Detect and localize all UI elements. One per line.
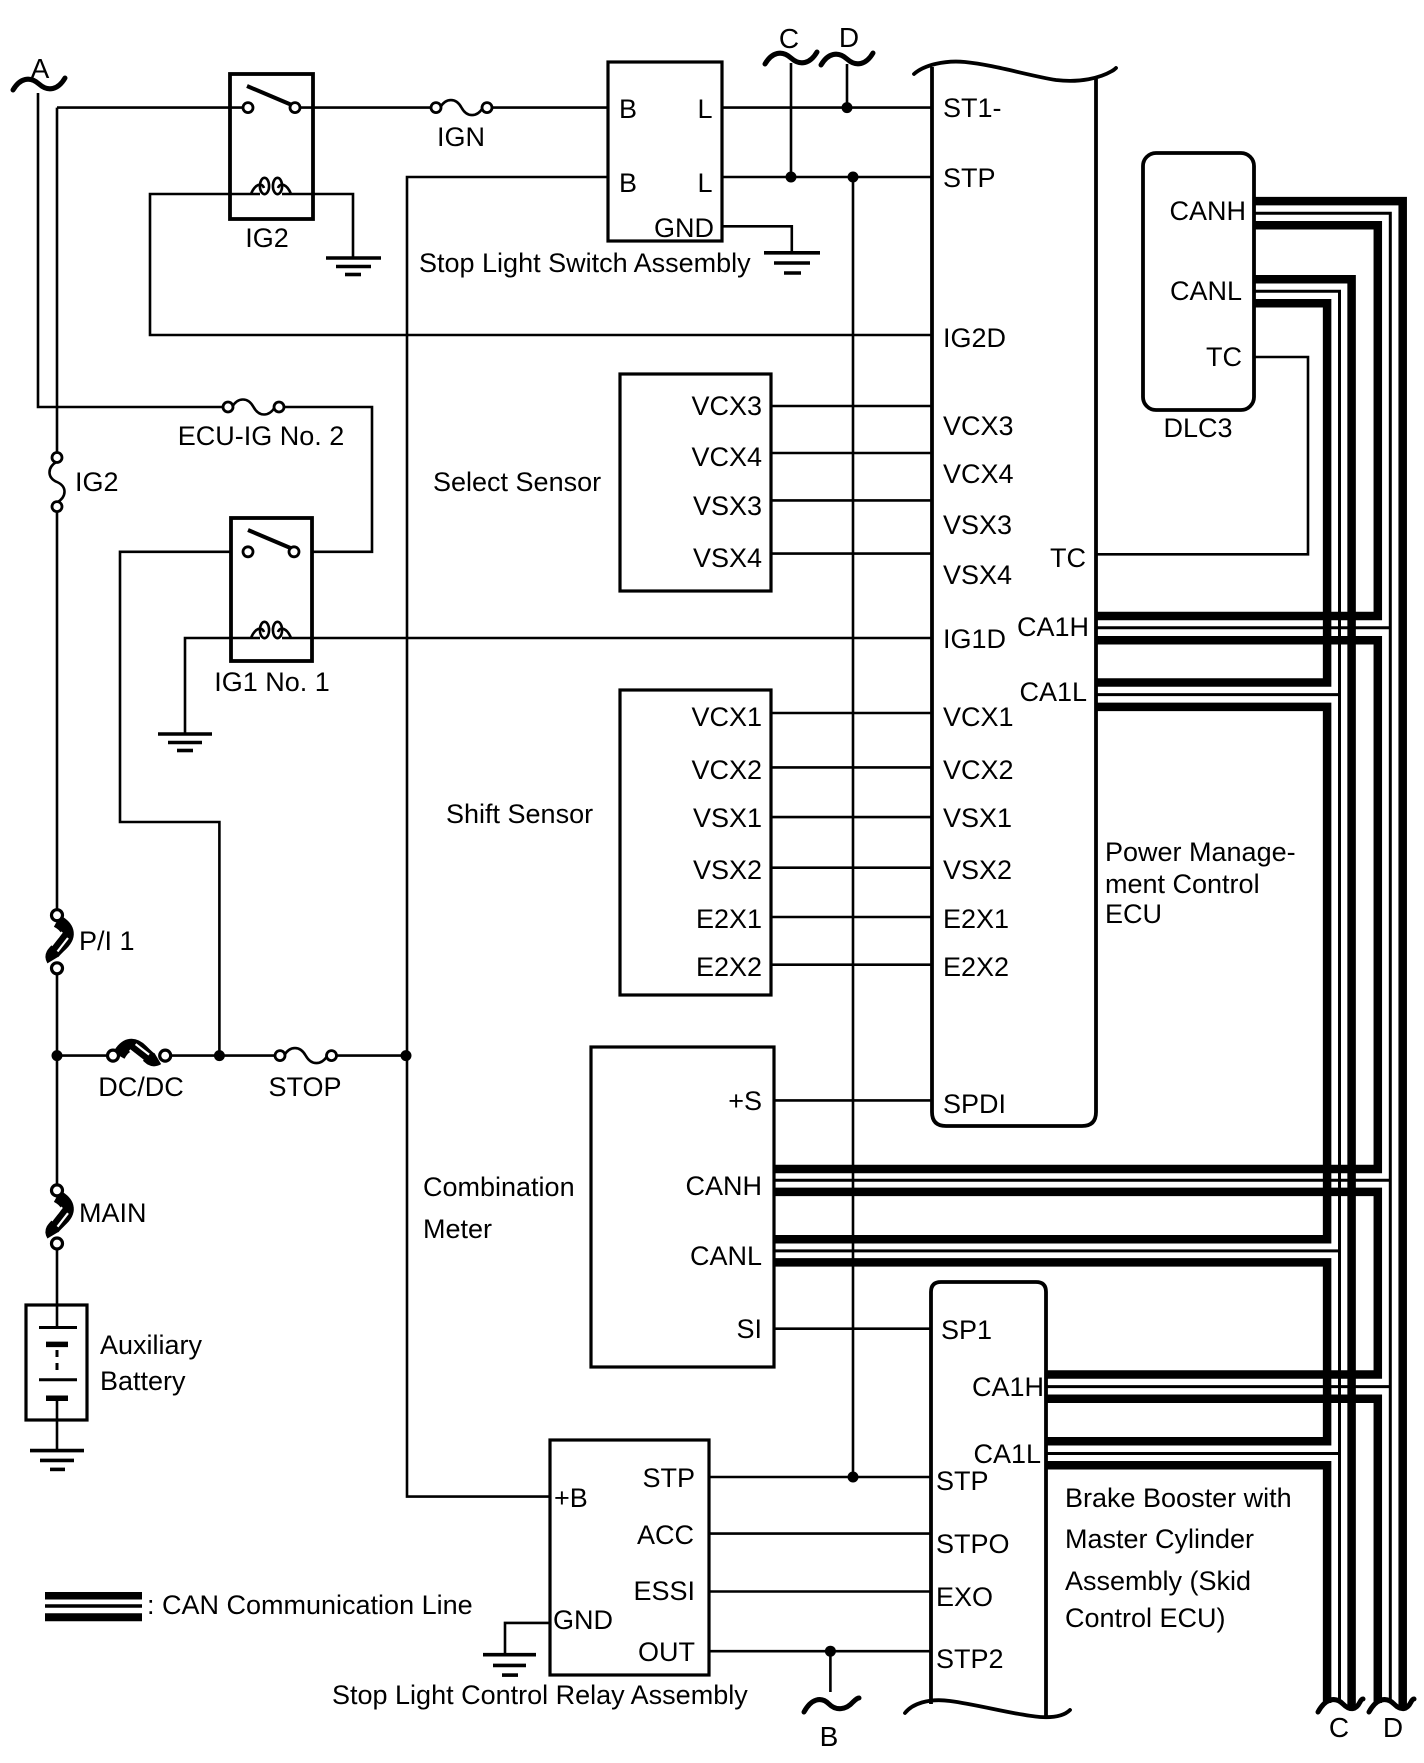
svg-text:IGN: IGN xyxy=(437,122,485,152)
fuse IG2 vertical xyxy=(50,453,65,512)
junction dot OUT/B xyxy=(825,1646,836,1657)
relay IG1 contact circles xyxy=(243,547,253,557)
fuse ECU-IG No.2 xyxy=(223,400,284,415)
CAN ECU CA1H thin xyxy=(1096,626,1390,629)
svg-text:E2X2: E2X2 xyxy=(696,952,762,982)
wire +S to SPDI xyxy=(774,1099,932,1102)
wire stub to connector B xyxy=(829,1651,832,1692)
svg-text:Power Manage-: Power Manage- xyxy=(1105,837,1296,867)
CAN trunk D outer line D3 from DLC3 CANH xyxy=(1254,201,1403,1710)
wire IG1 relay switch left xyxy=(120,552,231,1051)
svg-text:VCX1: VCX1 xyxy=(943,702,1014,732)
svg-text:STP: STP xyxy=(642,1463,695,1493)
svg-text:VSX2: VSX2 xyxy=(943,855,1012,885)
wire STOP fuse to vertical xyxy=(336,1054,407,1057)
svg-text:VCX3: VCX3 xyxy=(691,391,762,421)
shift sensor box xyxy=(620,690,771,995)
svg-text:ECU: ECU xyxy=(1105,899,1162,929)
svg-text:MAIN: MAIN xyxy=(79,1198,147,1228)
fusible link DC/DC horizontal xyxy=(108,1044,171,1061)
CAN trunk D inner line D1 segment a to ECU CA1H xyxy=(1096,225,1378,616)
wire IG1 coil to IG1D xyxy=(282,637,932,640)
svg-text:Auxiliary: Auxiliary xyxy=(100,1330,203,1360)
svg-text:VCX2: VCX2 xyxy=(691,755,762,785)
svg-text:VSX3: VSX3 xyxy=(693,491,762,521)
CAN trunk C inner line C1 segment d to connector C xyxy=(1046,1465,1327,1703)
brake booster box xyxy=(931,1282,1046,1716)
svg-text:IG2: IG2 xyxy=(75,467,119,497)
svg-text:VSX4: VSX4 xyxy=(943,560,1012,590)
select sensor box xyxy=(620,374,771,591)
wire relay ACC to booster STPO xyxy=(709,1532,931,1535)
svg-text:IG2D: IG2D xyxy=(943,323,1006,353)
svg-text:GND: GND xyxy=(654,213,714,243)
svg-text:VSX1: VSX1 xyxy=(693,803,762,833)
svg-text:IG2: IG2 xyxy=(245,223,289,253)
svg-text:E2X1: E2X1 xyxy=(943,904,1009,934)
wire IG2 coil to ground xyxy=(282,194,353,258)
svg-text:VCX2: VCX2 xyxy=(943,755,1014,785)
combination meter box xyxy=(591,1047,774,1367)
svg-text:VCX3: VCX3 xyxy=(943,411,1014,441)
svg-text:Combination: Combination xyxy=(423,1172,575,1202)
relay IG2 coil xyxy=(251,178,291,194)
svg-text:Meter: Meter xyxy=(423,1214,492,1244)
stop light control relay assembly box xyxy=(550,1440,709,1675)
ground stop light switch xyxy=(764,253,820,273)
CAN meter CANH thin xyxy=(774,1179,1390,1182)
CAN booster CA1L thin xyxy=(1046,1452,1340,1455)
wire E2X1 xyxy=(771,916,932,919)
CAN trunk D thin line D2 xyxy=(1254,213,1390,1700)
wire DC/DC row left xyxy=(57,1054,109,1057)
CAN ECU CA1L thin xyxy=(1096,693,1340,696)
relay IG1 coil xyxy=(251,622,291,638)
svg-text:DLC3: DLC3 xyxy=(1163,413,1232,443)
stop light switch assembly box xyxy=(608,62,722,241)
svg-text:CA1L: CA1L xyxy=(1019,677,1087,707)
wire battery to ground xyxy=(56,1399,59,1451)
wire IG2 coil to IG2D xyxy=(150,194,932,335)
wire VCX4 xyxy=(771,452,932,455)
wire IG1 coil to ground xyxy=(185,638,260,734)
wire E2X2 xyxy=(771,963,932,966)
wire VSX2 xyxy=(771,866,932,869)
ground IG1 relay xyxy=(158,734,212,751)
wire relay OUT to booster STP2 xyxy=(709,1650,931,1653)
relay IG2 box xyxy=(230,74,313,219)
svg-text:ment Control: ment Control xyxy=(1105,869,1260,899)
svg-text:L: L xyxy=(697,168,712,198)
relay IG2 contact circles xyxy=(243,103,253,113)
fuse IGN xyxy=(431,100,492,115)
svg-text:A: A xyxy=(31,53,50,84)
booster bottom break wavy xyxy=(905,1700,1070,1717)
svg-text:E2X1: E2X1 xyxy=(696,904,762,934)
junction dot STP bottom xyxy=(848,1472,859,1483)
svg-text:P/I 1: P/I 1 xyxy=(79,926,135,956)
node A feed wire xyxy=(38,93,224,407)
svg-text:Select Sensor: Select Sensor xyxy=(433,467,601,497)
svg-text:STPO: STPO xyxy=(936,1529,1010,1559)
junction dot STP vertical xyxy=(848,172,859,183)
svg-text:STOP: STOP xyxy=(268,1072,341,1102)
CAN trunk C inner line C1 segment a to ECU CA1L xyxy=(1096,303,1327,682)
svg-text:IG1D: IG1D xyxy=(943,624,1006,654)
wire SI to SP1 xyxy=(774,1327,931,1330)
svg-text:Master Cylinder: Master Cylinder xyxy=(1065,1524,1254,1554)
svg-text:ACC: ACC xyxy=(637,1520,694,1550)
wire ST1- xyxy=(722,106,932,109)
fuse STOP xyxy=(275,1048,337,1063)
wire TC DLC3 to ECU xyxy=(1096,357,1308,554)
wire VCX3 xyxy=(771,405,932,408)
CAN meter CANL thin xyxy=(774,1249,1340,1252)
wire VCX2 xyxy=(771,766,932,769)
svg-text:Brake Booster with: Brake Booster with xyxy=(1065,1483,1292,1513)
svg-text:Shift Sensor: Shift Sensor xyxy=(446,799,593,829)
svg-text:B: B xyxy=(619,94,637,124)
svg-text:VSX2: VSX2 xyxy=(693,855,762,885)
CAN trunk C inner line C1 segment b to meter CANL xyxy=(774,707,1327,1239)
wire relay STP to booster STP xyxy=(709,1476,931,1479)
svg-text:+B: +B xyxy=(554,1483,588,1513)
connector B break bottom xyxy=(804,1698,859,1712)
svg-text:TC: TC xyxy=(1206,342,1242,372)
svg-text:Battery: Battery xyxy=(100,1366,186,1396)
wire STP long vertical xyxy=(852,177,855,1477)
svg-text:CA1L: CA1L xyxy=(973,1439,1041,1469)
wire main bus top xyxy=(57,106,244,109)
fusible link P/I 1 vertical xyxy=(52,910,69,974)
svg-text:SPDI: SPDI xyxy=(943,1089,1006,1119)
CAN trunk C outer line C3 from DLC3 CANL xyxy=(1254,279,1352,1710)
CAN trunk D inner line D1 segment c to booster CA1H xyxy=(774,1192,1378,1375)
svg-text:CANL: CANL xyxy=(1170,276,1242,306)
svg-text:VCX4: VCX4 xyxy=(691,442,762,472)
svg-text:C: C xyxy=(779,23,799,54)
CAN trunk D inner line D1 segment b to meter CANH xyxy=(774,640,1378,1169)
connector A break xyxy=(13,78,65,90)
svg-text:Stop Light Control Relay Assem: Stop Light Control Relay Assembly xyxy=(332,1680,748,1710)
junction dot D/ST1- xyxy=(842,102,853,113)
CAN trunk D inner line D1 segment d to connector D xyxy=(1046,1399,1378,1703)
svg-text:+S: +S xyxy=(728,1086,762,1116)
svg-text:CANL: CANL xyxy=(690,1241,762,1271)
wire STP xyxy=(722,176,932,179)
svg-text:OUT: OUT xyxy=(638,1637,695,1667)
wire VCX1 xyxy=(771,712,932,715)
wire relay GND to ground xyxy=(505,1623,550,1655)
wire IGN fuse to switch B xyxy=(491,106,608,109)
fusible link MAIN vertical xyxy=(52,1185,69,1249)
battery plates xyxy=(39,1328,77,1399)
svg-text:VSX3: VSX3 xyxy=(943,510,1012,540)
wire VSX4 xyxy=(771,552,932,555)
wire VSX1 xyxy=(771,816,932,819)
junction dot STOP/vertical xyxy=(401,1050,412,1061)
ground IG2 relay xyxy=(326,258,381,275)
svg-text:L: L xyxy=(697,94,712,124)
svg-text:IG1 No. 1: IG1 No. 1 xyxy=(214,667,330,697)
svg-text:STP2: STP2 xyxy=(936,1644,1004,1674)
relay IG2 switch blade xyxy=(247,86,293,106)
svg-text:C: C xyxy=(1329,1712,1349,1743)
wire switch B2 to relay +B xyxy=(407,177,608,1497)
wire relay ESSI to booster EXO xyxy=(709,1590,931,1593)
connector C break bottom xyxy=(1318,1699,1363,1712)
svg-text:SI: SI xyxy=(736,1314,762,1344)
svg-text:CA1H: CA1H xyxy=(1017,612,1089,642)
svg-text:VSX1: VSX1 xyxy=(943,803,1012,833)
CAN booster CA1H thin xyxy=(1046,1385,1390,1388)
ECU top break wavy xyxy=(914,62,1116,81)
svg-text:D: D xyxy=(839,22,859,53)
wire VSX3 xyxy=(771,499,932,502)
wire connector C drop xyxy=(790,63,793,177)
CAN trunk C thin line C2 xyxy=(1254,291,1340,1700)
svg-text:VSX4: VSX4 xyxy=(693,543,762,573)
svg-text:VCX1: VCX1 xyxy=(691,702,762,732)
wire fuse ECU-IG No.2 to relay IG1 xyxy=(284,407,373,552)
svg-text:: CAN Communication Line: : CAN Communication Line xyxy=(147,1590,473,1620)
svg-text:STP: STP xyxy=(943,163,996,193)
svg-text:B: B xyxy=(619,168,637,198)
svg-text:SP1: SP1 xyxy=(941,1315,992,1345)
power management control ECU box xyxy=(932,67,1096,1126)
DLC3 box xyxy=(1143,153,1254,410)
ground battery xyxy=(30,1451,84,1470)
svg-text:Assembly (Skid: Assembly (Skid xyxy=(1065,1566,1251,1596)
svg-text:D: D xyxy=(1383,1712,1403,1743)
svg-text:Stop Light Switch Assembly: Stop Light Switch Assembly xyxy=(419,248,751,278)
svg-text:ECU-IG No. 2: ECU-IG No. 2 xyxy=(178,421,345,451)
CAN trunk C inner line C1 segment c to booster CA1L xyxy=(774,1262,1327,1441)
svg-text:Control ECU): Control ECU) xyxy=(1065,1603,1226,1633)
svg-text:CA1H: CA1H xyxy=(972,1372,1044,1402)
svg-text:E2X2: E2X2 xyxy=(943,952,1009,982)
svg-text:ST1-: ST1- xyxy=(943,93,1002,123)
svg-text:STP: STP xyxy=(936,1466,989,1496)
wire DC/DC to STOP fuse xyxy=(170,1054,276,1057)
wire switch GND to ground xyxy=(722,226,792,253)
battery box xyxy=(26,1305,87,1420)
connector D break bottom xyxy=(1369,1699,1414,1712)
relay IG1 No.1 box xyxy=(231,518,312,661)
wire connector D drop xyxy=(846,64,849,108)
svg-text:VCX4: VCX4 xyxy=(943,459,1014,489)
ground relay assembly xyxy=(483,1655,536,1675)
connector D break top xyxy=(821,53,873,65)
svg-text:GND: GND xyxy=(553,1605,613,1635)
wire main bus vertical xyxy=(56,108,59,453)
connector C break top xyxy=(765,52,817,64)
svg-text:CANH: CANH xyxy=(685,1171,762,1201)
wire IG2 relay to IGN fuse xyxy=(300,106,432,109)
svg-text:DC/DC: DC/DC xyxy=(98,1072,184,1102)
svg-text:B: B xyxy=(820,1721,839,1752)
svg-text:TC: TC xyxy=(1050,543,1086,573)
junction dot C/STP xyxy=(786,172,797,183)
svg-text:EXO: EXO xyxy=(936,1582,993,1612)
junction dot bus/DCDC xyxy=(52,1050,63,1061)
svg-text:ESSI: ESSI xyxy=(633,1576,695,1606)
junction dot IG1 branch xyxy=(214,1050,225,1061)
relay IG1 switch blade xyxy=(248,530,294,550)
svg-text:CANH: CANH xyxy=(1169,196,1246,226)
CAN legend symbol xyxy=(45,1596,142,1617)
